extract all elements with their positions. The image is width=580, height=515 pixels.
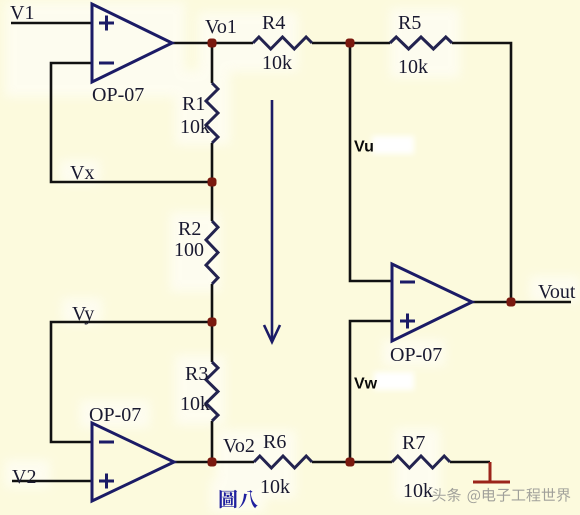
svg-text:Vout: Vout bbox=[538, 281, 576, 303]
svg-text:R7: R7 bbox=[402, 432, 425, 454]
svg-text:Vo2: Vo2 bbox=[223, 435, 255, 457]
svg-text:Vw: Vw bbox=[354, 376, 378, 393]
svg-text:R1: R1 bbox=[182, 93, 205, 115]
svg-text:R4: R4 bbox=[262, 12, 285, 34]
svg-text:10k: 10k bbox=[260, 476, 290, 498]
svg-text:100: 100 bbox=[174, 239, 204, 261]
svg-text:Vo1: Vo1 bbox=[205, 16, 237, 38]
svg-text:10k: 10k bbox=[180, 393, 210, 415]
svg-text:R6: R6 bbox=[263, 431, 286, 453]
svg-text:R5: R5 bbox=[398, 12, 421, 34]
svg-text:10k: 10k bbox=[398, 56, 428, 78]
svg-text:OP-07: OP-07 bbox=[92, 84, 144, 106]
svg-text:10k: 10k bbox=[262, 52, 292, 74]
svg-text:10k: 10k bbox=[180, 116, 210, 138]
svg-text:10k: 10k bbox=[403, 480, 433, 502]
svg-text:OP-07: OP-07 bbox=[390, 344, 442, 366]
svg-text:Vx: Vx bbox=[70, 162, 94, 184]
svg-text:OP-07: OP-07 bbox=[89, 404, 141, 426]
svg-text:V2: V2 bbox=[12, 466, 36, 488]
svg-text:R3: R3 bbox=[185, 363, 208, 385]
svg-text:Vu: Vu bbox=[354, 139, 374, 156]
svg-text:Vy: Vy bbox=[72, 303, 94, 325]
svg-text:V1: V1 bbox=[10, 2, 34, 24]
svg-text:R2: R2 bbox=[178, 218, 201, 240]
